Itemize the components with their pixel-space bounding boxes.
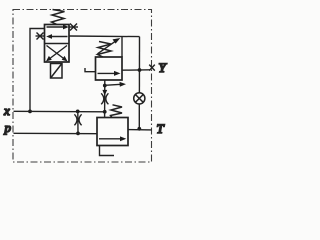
valve V1 right plugged port X xyxy=(69,24,78,31)
svg-text:x: x xyxy=(3,103,10,118)
enclosure dash-dot border xyxy=(13,10,152,163)
wire: port X line xyxy=(14,110,105,113)
node: pilot drain branch xyxy=(103,84,107,88)
gauge connection circle-X xyxy=(134,93,145,104)
down arrow on pilot drain line xyxy=(102,90,107,96)
wire: V2 right port to Y xyxy=(122,69,150,71)
wire: V2 left port stub xyxy=(85,68,96,72)
node: riser joins X line xyxy=(28,110,32,114)
valve V1 left plugged port X xyxy=(36,33,45,40)
svg-text:p: p xyxy=(4,120,12,135)
node: Y line crosses right vertical xyxy=(138,68,142,72)
pilot valve V2 spring adjustment arrow xyxy=(98,38,121,54)
wire: V2 top port riser to long line xyxy=(121,36,123,57)
main valve V3 internal arrow xyxy=(99,136,126,141)
pilot valve V2 body xyxy=(96,57,123,80)
orifice block under valve V1 xyxy=(51,64,63,79)
node: restrictor tap on X line xyxy=(76,110,80,114)
node: pilot line joins X line xyxy=(103,110,107,114)
wire: V3 bottom drain port xyxy=(100,146,115,156)
wire: restrictor branch X line down to P line xyxy=(77,111,79,133)
wire: right vertical lower segment to T line xyxy=(138,104,140,129)
main valve V3 spring xyxy=(111,105,123,118)
plugged port X at Y xyxy=(149,65,155,71)
wire: V2 bottom port down to main valve top xyxy=(104,80,106,118)
node: restrictor joins P line xyxy=(76,132,80,136)
valve V1 lower arrow (points left) xyxy=(46,34,67,39)
valve V1 crossed arrows (lower square) xyxy=(46,46,68,62)
pilot valve V2 internal arrow xyxy=(98,71,121,76)
wire: right vertical upper segment xyxy=(138,37,140,93)
restrictor R2 xyxy=(101,93,108,104)
svg-text:T: T xyxy=(157,121,165,136)
wire: V1 left port to riser and down to X line xyxy=(30,29,45,112)
wire: port P line xyxy=(14,132,98,134)
valve V1 spring xyxy=(52,10,65,25)
wire: branch to the right with arrow xyxy=(105,82,126,87)
main valve V3 body xyxy=(97,118,128,146)
valve V1 upper arrow (points right) xyxy=(47,25,69,30)
restrictor R1 xyxy=(74,114,81,125)
pilot valve V2 spring xyxy=(98,42,112,58)
valve V1 body (2-position unloading valve, top-left) xyxy=(45,25,70,63)
node: right vertical joins T line xyxy=(137,127,141,131)
wire: port T line xyxy=(128,129,152,131)
wire: long line from V1 right port to right vertical xyxy=(69,35,140,38)
svg-text:Y: Y xyxy=(159,60,168,75)
